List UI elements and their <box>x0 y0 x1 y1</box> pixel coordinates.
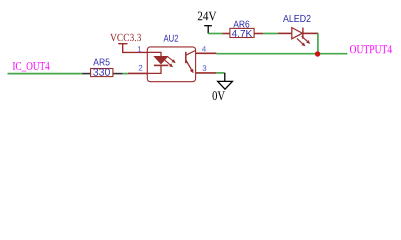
pin 2 lead <box>128 72 148 74</box>
pin 2 number <box>139 65 143 71</box>
pin 3 number <box>203 65 207 71</box>
net label IC_OUT4 <box>13 62 50 71</box>
phototransistor base bar <box>185 52 187 63</box>
wire IC_OUT4 to AR5 <box>8 73 83 75</box>
pin 1 number <box>138 46 142 52</box>
diode ALED2 cathode lead <box>303 32 319 34</box>
optocoupler AU2 body <box>147 47 195 82</box>
ground 0V symbol <box>218 73 233 89</box>
wire AU2 pin4 to OUTPUT4 <box>216 53 347 55</box>
phototransistor collector <box>186 50 196 55</box>
designator ALED2 <box>283 15 311 22</box>
internal LED triangle <box>153 56 168 65</box>
wire AU2 pin3 to ground <box>216 72 224 74</box>
power VCC3.3 <box>118 44 147 53</box>
junction <box>315 51 320 56</box>
resistor AR5 body <box>91 69 113 77</box>
power label VCC3.3 <box>110 34 141 41</box>
pin 3 lead <box>196 72 217 74</box>
light arrow 2 <box>165 60 173 67</box>
diode ALED2 cathode bar <box>302 28 304 39</box>
wire AR6 to ALED2 <box>263 33 278 35</box>
power label 24V <box>198 12 217 21</box>
internal LED cathode wire <box>147 65 161 73</box>
wire 24V to AR6 <box>208 33 222 35</box>
value label 4.7K <box>232 30 252 37</box>
designator AR6 <box>233 21 249 28</box>
wire ALED2 cathode down to output net <box>317 33 319 53</box>
light arrow 1 <box>167 57 175 64</box>
designator AU2 <box>164 35 179 42</box>
internal LED cathode bar <box>154 64 168 66</box>
ground label 0V <box>213 91 225 100</box>
resistor AR5 leads <box>82 73 122 75</box>
net label OUTPUT4 <box>350 45 392 53</box>
pin 4 number <box>202 46 206 52</box>
diode ALED2 triangle <box>292 28 303 39</box>
internal LED anode wire <box>147 52 161 56</box>
diode ALED2 anode lead <box>278 32 292 34</box>
ALED2 light arrow 2 <box>297 38 306 46</box>
value label 330 <box>93 68 110 75</box>
phototransistor emitter <box>186 60 194 73</box>
pin 4 lead <box>196 52 217 54</box>
resistor AR6 leads <box>222 33 263 35</box>
wire AR5 to AU2 pin2 <box>123 73 128 75</box>
designator AR5 <box>93 59 109 66</box>
ALED2 light arrow 1 <box>302 36 311 44</box>
power 24V symbol <box>204 26 212 34</box>
resistor AR6 body <box>230 28 254 37</box>
